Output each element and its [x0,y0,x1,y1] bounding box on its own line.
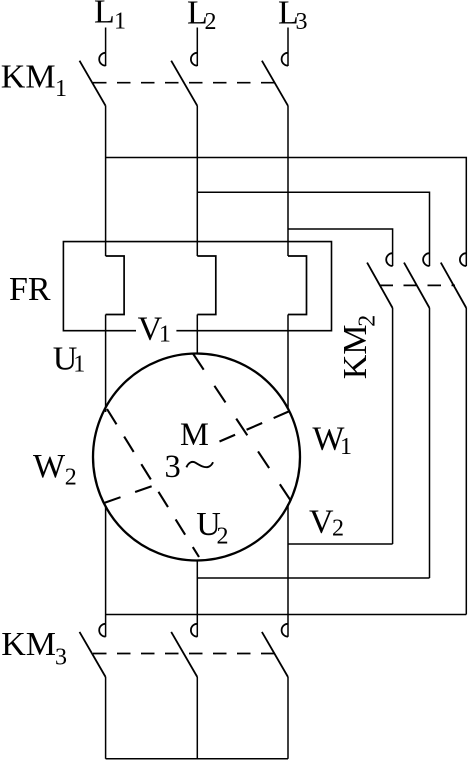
motor label 3 (phases) [165,449,181,485]
svg-text:1: 1 [340,434,352,460]
FR heater element phase2 [197,256,216,315]
wire phase1 upper (KM1 to FR) [105,106,107,256]
svg-text:KM: KM [337,325,374,380]
motor terminal V2 label [309,503,344,541]
contactor KM3 pole3 blade [262,632,288,677]
contactor KM2 pole3 fixed-contact hook [460,253,466,266]
FR heater element phase3 [288,256,307,315]
contactor KM1 pole1 fixed-contact hook [99,53,105,66]
contactor KM1 pole2 fixed-contact hook [191,53,197,66]
contactor KM3 pole3 stub [287,615,289,637]
contactor KM3 pole1 stub [105,615,107,637]
motor terminal U2 label [196,506,228,549]
wire motor W2 down [105,506,107,615]
svg-text:1: 1 [73,352,85,378]
contactor KM3 pole3 fixed-contact hook [282,624,288,637]
wire motor V2 down [287,504,289,615]
wire KM3 pole1 down [105,677,107,759]
svg-text:3: 3 [165,449,181,485]
node L2 label [187,0,217,35]
contactor KM2 pole1 fixed-contact hook [386,253,392,266]
motor terminal U1 label [53,340,85,377]
svg-text:L: L [94,0,115,31]
svg-text:FR: FR [9,271,51,308]
wire L3 stub [287,28,289,67]
svg-text:2: 2 [65,465,77,491]
svg-text:1: 1 [114,9,126,35]
contactor KM3 pole2 fixed-contact hook [191,624,197,637]
FR heater element phase1 [106,256,125,315]
motor terminal W1 label [312,421,352,461]
contactor KM3 pole2 blade [171,632,197,677]
wire KM2 pole3 down to KM3 bus [465,308,467,615]
wire FR to motor terminal W1 [287,315,289,410]
wire branch phase2 to KM2 pole2 (y=192) [197,192,429,266]
contactor KM2 pole2 blade [404,263,430,308]
wire V2 to KM2 pole1 (y=544) [288,543,393,545]
motor M body circle [93,354,300,561]
contactor KM1 pole1 blade [80,61,106,106]
node L3 label [278,0,308,35]
contactor KM2 pole2 fixed-contact hook [423,253,429,266]
wire phase3 upper (KM1 to FR) [287,106,289,256]
contactor KM3 pole2 stub [196,615,198,637]
motor terminal V1 label [138,311,171,348]
wire branch phase1 to KM2 pole3 (y=157) [106,158,467,267]
svg-text:KM: KM [1,59,56,96]
contactor KM2 pole1 blade [367,263,393,308]
wire KM3 pole2 down [196,677,198,759]
motor winding U1-U2 (dashed) [107,409,199,557]
motor winding V1-V2 (dashed) [193,353,291,501]
contactor KM1 mechanical link (dashed) [93,82,276,84]
contactor KM1 pole2 blade [171,61,197,106]
wire FR to motor terminal U1 [105,315,107,413]
svg-text:1: 1 [55,76,67,102]
contactor KM1 label [1,59,67,102]
wire KM3 pole3 down [287,677,289,759]
svg-text:2: 2 [354,315,380,327]
svg-text:M: M [180,417,209,453]
motor label tilde (AC) [186,462,213,467]
motor terminal W2 label [33,448,77,491]
contactor KM1 pole3 blade [262,61,288,106]
svg-text:3: 3 [55,645,67,671]
svg-text:W: W [33,448,66,485]
wire FR to motor terminal V1 [196,315,198,354]
motor winding W1 upper segment (dashed) [220,411,292,442]
wire KM3 bottom bus (star point) [106,758,288,760]
svg-text:2: 2 [332,516,344,542]
svg-text:2: 2 [205,9,217,35]
contactor KM2 mechanical link (dashed) [380,284,456,286]
motor winding W2 lower segment (dashed) [104,485,157,504]
svg-text:2: 2 [217,524,229,550]
wire L2 stub [196,28,198,67]
contactor KM3 label [1,626,67,670]
motor label M [180,417,209,453]
svg-text:1: 1 [159,322,171,348]
contactor KM2 pole3 blade [441,263,467,308]
wire KM2 pole2 down to U2 node [429,308,431,578]
wire U2 to KM2 pole2 (y=578) [197,577,429,579]
thermal relay FR label [9,271,51,308]
wire motor U2 down [196,561,198,615]
svg-text:V: V [309,503,334,540]
node L1 label [94,0,126,35]
thermal relay FR box [63,242,331,331]
svg-text:KM: KM [1,626,56,663]
contactor KM2 label (rotated) [337,315,381,380]
svg-text:3: 3 [296,9,308,35]
wire branch phase3 to KM2 pole1 (y=229) [288,229,393,266]
contactor KM3 pole1 blade [80,632,106,677]
contactor KM3 pole1 fixed-contact hook [99,624,105,637]
contactor KM3 mechanical link (dashed) [93,653,276,655]
wire L1 stub [105,28,107,67]
wire KM3 top bus (y=614.5) [106,614,467,616]
wire KM2 pole1 down to V2 node [392,308,394,544]
wire phase2 upper (KM1 to FR) [196,106,198,256]
contactor KM1 pole3 fixed-contact hook [282,53,288,66]
